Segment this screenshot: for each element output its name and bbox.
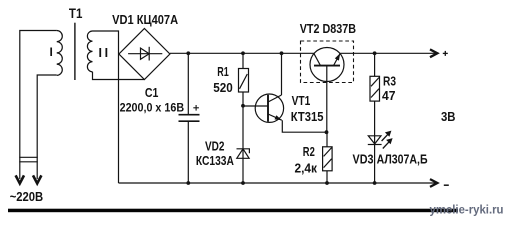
label minus <box>444 184 449 186</box>
svg-text:3В: 3В <box>441 109 456 124</box>
wire mains right lead <box>37 75 57 179</box>
mains arrow right <box>33 175 41 183</box>
svg-text:I: I <box>50 45 53 59</box>
svg-text:VT2 D837В: VT2 D837В <box>300 22 356 36</box>
VT2 emitter arrowhead <box>335 53 340 60</box>
svg-text:520: 520 <box>213 81 233 95</box>
wire secondary bottom to bridge bottom corner <box>93 72 145 80</box>
node C1 top <box>186 51 190 55</box>
svg-text:R2: R2 <box>303 145 315 159</box>
bridge rectifier VD1 diamond <box>119 29 170 80</box>
svg-text:КТ315: КТ315 <box>291 110 324 124</box>
wire VT2 base lead <box>326 66 328 133</box>
C1 polarity plus <box>193 105 199 111</box>
output minus arrow <box>430 179 437 187</box>
VT1 emitter arrowhead <box>275 115 282 120</box>
svg-text:АЛ307А,Б: АЛ307А,Б <box>377 152 428 166</box>
resistor R1 <box>239 69 249 93</box>
wire R3 to LED <box>374 101 376 183</box>
wire R1 bottom lead <box>242 92 244 183</box>
separator thick line <box>8 209 458 213</box>
svg-text:~220В: ~220В <box>10 190 44 204</box>
wire C1 branch lower <box>187 121 189 183</box>
svg-text:2200,0 x 16В: 2200,0 x 16В <box>120 101 185 115</box>
svg-text:T1: T1 <box>69 6 83 21</box>
transformer T1 primary winding I <box>57 31 63 76</box>
wire R3 top lead <box>374 53 376 76</box>
wire R2 bottom lead <box>326 171 328 183</box>
svg-text:VD2: VD2 <box>205 140 225 154</box>
LED VD3 <box>368 136 382 145</box>
LED VD3 light arrow upper <box>382 132 390 141</box>
wire VT1 base <box>243 105 268 107</box>
wire mains left lead <box>20 31 57 180</box>
transformer T1 secondary winding II <box>87 31 92 72</box>
wire VT1 collector riser <box>281 53 283 95</box>
wire C1 branch upper <box>187 53 189 114</box>
svg-text:R1: R1 <box>217 65 229 79</box>
node R1 VD2 VT1 base junction <box>241 104 245 108</box>
transistor VT1 <box>255 94 283 122</box>
LED VD3 light arrow lower <box>383 140 391 149</box>
wire VT1 emitter to VT2 base line <box>282 120 326 132</box>
transformer T1 core <box>74 23 76 80</box>
label plus <box>443 51 448 56</box>
node VD3 bottom <box>373 181 377 185</box>
svg-text:VT1: VT1 <box>292 94 311 108</box>
output plus arrow <box>430 49 437 57</box>
node emitter VT2 base junction <box>325 130 329 134</box>
node VT1 collector top <box>280 51 284 55</box>
wire VT2 base to R2 <box>326 132 328 147</box>
wire R1 top lead <box>242 53 244 68</box>
svg-text:R3: R3 <box>383 75 396 89</box>
svg-text:VD1 КЦ407А: VD1 КЦ407А <box>112 12 179 27</box>
mains arrow left <box>16 175 24 183</box>
bottom rail wire <box>119 182 437 184</box>
zener diode VD2 <box>237 149 250 159</box>
resistor R2 <box>323 147 333 171</box>
node R1 top <box>241 51 245 55</box>
node C1 bottom <box>186 181 190 185</box>
node R3 top <box>373 51 377 55</box>
mains break ticks <box>19 157 37 162</box>
node VD2 bottom <box>241 181 245 185</box>
dashed box around VT2 <box>301 41 354 83</box>
wire secondary top to bridge left corner and down to bottom rail <box>93 31 119 183</box>
top rail wire from bridge to VT2 collector <box>170 52 314 54</box>
svg-text:VD3: VD3 <box>353 152 374 166</box>
top rail wire from VT2 emitter to output plus <box>340 52 436 54</box>
svg-text:II: II <box>99 46 111 60</box>
svg-text:2,4к: 2,4к <box>295 161 318 175</box>
transistor VT2 <box>310 48 344 82</box>
svg-text:КС133А: КС133А <box>196 154 234 168</box>
resistor R3 <box>370 76 380 101</box>
capacitor C1 <box>179 115 200 122</box>
svg-text:47: 47 <box>382 89 396 103</box>
svg-text:ymelie-ryki.ru: ymelie-ryki.ru <box>430 205 504 217</box>
svg-text:C1: C1 <box>145 86 159 100</box>
node R2 bottom <box>325 181 329 185</box>
bridge VD1 internal diode <box>128 47 162 61</box>
